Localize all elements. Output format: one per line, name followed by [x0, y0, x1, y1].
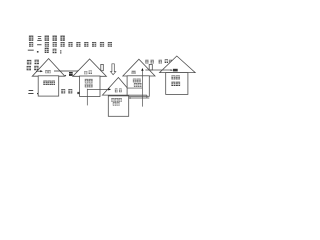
hollow down arrow — [111, 64, 116, 75]
house5 body (库存商品) — [166, 73, 188, 95]
elbow connector: body4 bottom to body3 (right-down-left) — [127, 94, 147, 96]
title line2: 第 一 节 存 货 的 确 认 和 计 量 — [29, 42, 33, 47]
house4 chimney — [149, 65, 152, 71]
arrow: 在途物资 → 仓库 — [36, 70, 41, 72]
fifth small glyph on roof5 slope — [169, 60, 172, 64]
title line1: 第 三 章 存 货 — [29, 36, 33, 41]
label: 在途 / 物资 (materials in transit) — [27, 60, 31, 65]
small dark mark at roof1 right base corner — [64, 75, 66, 76]
body2 label 生产/成本 — [85, 79, 89, 83]
text: 确 认 — [61, 89, 65, 93]
roof3 label 仓库 — [115, 89, 118, 93]
body3 label 自制半/成品 — [111, 98, 114, 101]
up arrow into house4 — [141, 71, 143, 107]
arrow 生产成本→仓库3 — [87, 88, 108, 90]
house3 body (自制半成品) — [108, 96, 128, 116]
descender line from body2 — [86, 89, 88, 106]
house4 body (生产成本) — [127, 76, 149, 97]
roof1 label 仓库 — [45, 70, 47, 73]
body5 label 库存/商品 — [171, 76, 175, 80]
partial glyph at workshop body edge — [77, 92, 80, 94]
house4 roof (车间2) — [123, 59, 155, 76]
text: 二 、 (row y≈90-94) — [28, 90, 33, 94]
body4 label 生产/成本 — [133, 79, 137, 83]
line3: 一 、 存 货 ： — [28, 49, 34, 52]
house2 body (生产成本) — [80, 76, 100, 97]
house3 roof (仓库) — [102, 78, 133, 96]
house1 body (原材料) — [38, 76, 59, 96]
arrow 仓库→车间 with label glyph — [54, 70, 78, 72]
four small glyphs top-right — [145, 60, 148, 64]
house2 roof (车间) — [73, 59, 107, 76]
house2 chimney — [101, 64, 104, 70]
arrowhead into warehouse1 body — [37, 93, 39, 95]
house1 roof (仓库) — [32, 59, 65, 77]
house5 roof (仓库) — [160, 56, 196, 73]
roof5 small label mark — [171, 69, 173, 71]
roof2 label 车间 — [84, 71, 87, 74]
body1 label 原材料 — [43, 81, 47, 85]
line 车间2→仓库5 — [145, 69, 171, 71]
roof4 label (二-like dashes) — [131, 71, 136, 74]
line 仓库3→车间4 — [127, 87, 142, 89]
